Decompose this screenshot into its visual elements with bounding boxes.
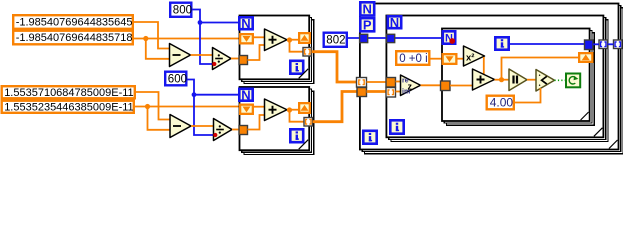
wire divide2 to loop2 tunnel [232,129,240,131]
numeric constant -1.98540769644835718 [13,31,133,45]
loop2 wire tunnel to add2 bottom input [248,115,267,130]
loop1 wire add1 to right shift register [287,39,298,41]
svg-text:0 +0 i: 0 +0 i [399,53,427,65]
wire abs to less-than [527,79,537,81]
svg-text:x²: x² [466,53,474,64]
for-loop 2 stacked page 1 [242,89,312,152]
loop2 junction at add2 output [287,107,292,112]
loop3 left indexing tunnel x-array [357,78,367,88]
loop5 left shift register [443,54,457,64]
middle for-loop 4 front fold corner [594,128,603,137]
complex constant 0 +0 i [396,51,429,65]
loop4 left indexing tunnel y-array [386,88,396,98]
loop2 add node [265,99,288,121]
wire c to add5 bottom input [450,85,473,87]
for-loop 2 border [240,87,310,150]
loop4 count terminal N [388,15,401,30]
loop1 iteration terminal i [290,61,303,74]
loop4 iteration terminal i [390,120,403,133]
integer constant 800 [170,3,192,17]
loop3 right indexing output tunnel [614,40,623,49]
wire x inside loop3 [367,81,387,83]
svg-text:-1.98540769644835645: -1.98540769644835645 [16,17,133,29]
loop5 conditional terminal continue-if-true [566,74,580,88]
loop2 indexing output tunnel [304,118,313,127]
svg-text:1.5535710684785009E-11: 1.5535710684785009E-11 [4,87,133,99]
loop3 left tunnel for 802 wire [360,34,368,42]
square node x^2 [464,46,485,66]
loop2 iteration terminal i [290,129,303,142]
svg-text:N: N [363,2,372,17]
loop3 count terminal N [360,2,374,17]
loop4 left tunnel for 802 wire [387,34,395,42]
loop3 iteration terminal i [363,131,376,144]
wire 800 to loop1 N and divide1 [193,10,240,65]
for-loop 2 stacked page 2 [244,91,314,154]
coercion dot on divide1 bottom input [212,62,216,66]
svg-text:4.00: 4.00 [490,96,514,110]
middle for-loop 4 border [386,16,603,138]
loop2 wire shift register to add2 top input [254,106,266,108]
for-loop 1 stacked page 1 [242,18,312,82]
loop5 output tunnel for i [585,40,594,50]
less than node [536,70,555,92]
for-loop 2 front fold corner [299,140,309,150]
outer for-loop 3 front fold corner [609,140,618,149]
junction at add5 output [499,77,504,82]
numeric constant 1.5535710684785009E-11 [2,86,135,99]
loop2 left shift register [240,105,253,114]
svg-text:N: N [241,16,250,31]
wire 802 through outer loop tunnels to inner N [348,37,443,39]
absolute value node [509,69,527,91]
wire shift register to square node [458,58,465,60]
wire loop4 tunnel to loop3 tunnel [608,43,614,45]
wire x to re input [396,81,402,83]
wire square output down to add5 [483,57,485,74]
svg-text:P: P [363,17,372,32]
wire constant4 to loop2 shift register and subtract2 [135,107,239,130]
loop2 step input tunnel [239,126,248,135]
inner for-loop 5 front fold corner [581,112,589,120]
inner for-loop 5 stacked page 1 [444,31,592,124]
integer constant 802 [324,33,347,47]
subtract node 1 [170,44,191,67]
wire subtract2 to divide2 [191,125,214,127]
wire subtract1 to divide1 [191,54,213,56]
outer for-loop 3 stacked page 1 [362,6,621,152]
wire 0+0i to loop5 left shift register [431,58,443,60]
loop2 right shift register [299,103,310,113]
loop1 left shift register [240,34,253,43]
divide node 1 [213,48,232,70]
loop5 input tunnel c [441,81,451,91]
loop5 iteration terminal i [495,37,508,49]
wire add5 output to abs and right shift register [495,58,579,80]
svg-text:N: N [241,87,250,102]
outer for-loop 3 border [360,4,619,150]
inner for-loop 5 border [442,29,590,122]
subtract node 2 [170,115,191,138]
Re/Im to Complex node [401,75,421,96]
svg-text:802: 802 [326,35,345,47]
junction on 800 wire [198,20,203,25]
middle for-loop 4 stacked page 2 [391,20,608,142]
array wire loop1 to outer loop tunnel [312,52,358,82]
for-loop 1 front fold corner [299,69,309,79]
loop1 step input tunnel [239,56,248,65]
numeric constant 1.5535235446385009E-11 [2,101,134,114]
loop1 junction at add1 output [287,37,292,42]
loop2 wire add2 to right shift register [287,109,298,111]
boolean wire less-than to conditional terminal [555,79,566,81]
for-loop 1 stacked page 2 [244,20,314,84]
wire 600 to loop2 N and divide2 [188,80,240,136]
array wire loop2 to outer loop tunnel [313,92,358,122]
loop1 right shift register [299,33,310,43]
loop5 right shift register [579,53,592,62]
junction on constant4 wire [145,104,150,109]
wire divide1 to loop1 tunnel [231,58,240,60]
loop5 count terminal N with coercion dot [443,31,455,44]
for-loop 1 border [240,16,310,80]
loop1 add node [265,29,288,51]
loop2 wire add2 output to exit tunnel [290,110,305,122]
loop2 count terminal N [239,87,252,102]
wire 4.00 to less-than bottom input [515,88,541,103]
loop1 wire tunnel to add1 bottom input [248,45,267,60]
wire y-array inside loop3 [367,90,387,93]
junction on 600 wire [192,92,197,97]
loop1 wire shift register to add1 top input [254,36,266,38]
numeric constant 4.00 [487,96,514,110]
coercion dot on divide2 bottom input [213,133,217,137]
loop1 count terminal N [239,16,252,31]
loop1 indexing output tunnel [303,48,312,57]
wire y to im input [396,91,402,93]
loop4 right indexing output tunnel [599,40,608,49]
wire constant2 to loop1 shift register and subtract [134,39,239,59]
wire complex z to loop5 tunnel [421,84,441,86]
junction on constant2 wire [143,36,148,41]
svg-text:N: N [390,15,399,30]
svg-text:600: 600 [168,73,187,85]
svg-text:-1.98540769644835718: -1.98540769644835718 [16,32,133,44]
middle for-loop 4 stacked page 1 [389,18,606,140]
inner for-loop 5 stacked page 2 [447,33,595,126]
integer constant 600 [165,72,187,86]
loop3 left tunnel y-array [357,88,367,97]
svg-text:z: z [408,82,413,92]
loop3 parallel instances terminal P [360,17,374,32]
wire i to loop5 output tunnel [510,43,585,45]
wire loop5 tunnel to loop4 tunnel [593,43,599,45]
outer for-loop 3 stacked page 2 [365,8,623,154]
svg-text:800: 800 [173,5,192,17]
loop1 wire add1 output to exit tunnel [290,40,304,52]
loop4 left tunnel x value [386,78,396,88]
add node z squared plus c [473,69,495,90]
svg-text:1.5535235446385009E-11: 1.5535235446385009E-11 [4,102,133,114]
wire constant1 to subtract top input [134,22,170,49]
numeric constant -1.98540769644835645 [13,15,133,29]
wire constant3 to subtract2 top input [136,92,171,120]
divide node 2 [214,119,233,141]
